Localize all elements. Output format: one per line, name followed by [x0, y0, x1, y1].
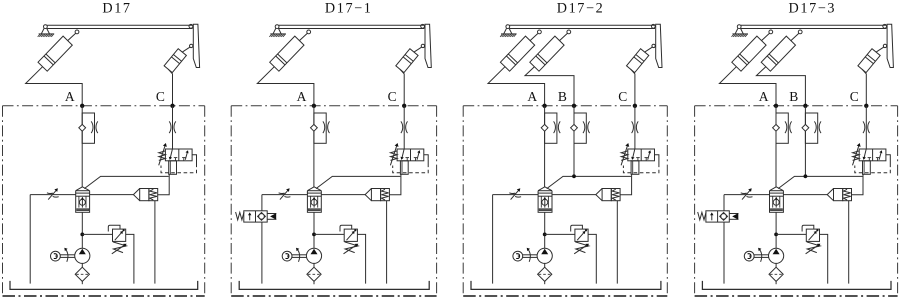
wire port B down — [573, 106, 575, 177]
electric motor — [513, 251, 523, 261]
wire check valve to tank — [616, 201, 618, 284]
check-throttle valve under A — [79, 113, 98, 143]
wire pump junction to relief valve — [776, 233, 806, 235]
wire regulator to pump — [775, 212, 777, 248]
pilot valve spring — [621, 151, 628, 161]
boom beam — [279, 25, 424, 28]
pin joint tilt cylinder — [652, 44, 655, 47]
wire solenoid valve to tank — [261, 222, 263, 284]
check valve poppet — [365, 189, 389, 201]
pin joint cylinder 2 — [798, 30, 802, 34]
pin joint cylinder 2 — [567, 30, 571, 34]
flow regulator valve — [307, 187, 321, 213]
svg-text:D17−3: D17−3 — [789, 0, 837, 16]
wire regulator to pump — [544, 212, 546, 248]
boom beam — [510, 25, 655, 28]
wire port A down — [775, 106, 777, 187]
node pilot-B junction — [804, 174, 808, 178]
check-throttle valve under B — [571, 113, 590, 143]
pilot valve spool extension — [169, 161, 177, 175]
lift cylinder 1 — [732, 33, 770, 71]
rotation arrow — [758, 248, 762, 262]
wire relief valve to tank — [126, 234, 134, 283]
pilot valve right port link — [886, 155, 890, 164]
pilot valve spring — [391, 151, 398, 161]
check-throttle valve under A — [773, 113, 792, 143]
boom beam — [741, 25, 886, 28]
wire check valve to tank — [386, 201, 388, 284]
wire regulator to tank-throttle line — [724, 194, 770, 196]
wire port B down — [804, 106, 806, 177]
throttle on C line — [401, 121, 408, 133]
wire relief valve to tank — [357, 234, 365, 283]
pilot valve 2-position body — [859, 149, 886, 161]
wire tilt cylinder to port C — [400, 69, 404, 106]
pilot valve proportional arrow — [159, 143, 167, 165]
throttle on C line — [632, 121, 639, 133]
wire relief valve to tank — [588, 234, 596, 283]
flow regulator valve — [76, 187, 90, 213]
wire cylinder 2 to port B — [756, 67, 805, 106]
boom pivot with ground — [732, 25, 749, 37]
relief valve — [571, 225, 589, 254]
svg-text:C: C — [156, 89, 165, 104]
pilot valve proportional arrow — [621, 143, 629, 165]
solenoid valve body — [706, 211, 729, 222]
pilot valve drain dashed line — [855, 164, 891, 173]
lift cylinder 2 — [761, 33, 799, 71]
pin joint tilt cylinder — [421, 44, 424, 47]
rotation arrow — [527, 248, 531, 262]
svg-text:A: A — [297, 89, 307, 104]
fork tine — [656, 24, 662, 67]
check valve poppet — [133, 189, 157, 201]
wire cylinder 1 to port A — [719, 67, 776, 106]
fork tine — [425, 24, 431, 67]
motor shaft — [523, 255, 537, 258]
pilot valve 2-position body — [165, 149, 192, 161]
svg-text:A: A — [527, 89, 537, 104]
pump — [769, 248, 784, 263]
tank — [702, 281, 891, 290]
flow regulator valve — [770, 187, 784, 213]
node pilot-B junction — [572, 174, 576, 178]
wire port C down — [634, 106, 636, 149]
wire regulator to tank-throttle line — [30, 194, 75, 196]
wire pump junction to relief valve — [545, 233, 575, 235]
tank — [471, 281, 661, 290]
pin joint boom end — [421, 24, 425, 28]
lift cylinder 1 — [38, 33, 76, 71]
pilot valve right position arrow — [182, 150, 188, 160]
pilot valve right port link — [424, 155, 428, 164]
wire pump to filter — [313, 263, 315, 267]
wire cylinder 1 to port A — [488, 67, 545, 106]
rotation arrow — [296, 248, 300, 262]
wire regulator to pump — [313, 212, 315, 248]
lift cylinder 1 — [500, 33, 538, 71]
pilot valve spool extension — [631, 161, 639, 175]
pilot valve spring — [159, 151, 166, 161]
svg-text:C: C — [850, 89, 859, 104]
pilot valve proportional arrow — [853, 143, 861, 165]
pilot valve spring — [853, 151, 860, 161]
pilot valve left position flow arrow — [631, 149, 640, 161]
wire port C down — [865, 106, 867, 149]
suction filter — [307, 267, 321, 281]
pilot valve left position flow arrow — [863, 149, 872, 161]
throttle on C line — [863, 121, 870, 133]
pilot valve drain dashed line — [161, 164, 197, 173]
check-throttle valve under A — [311, 113, 330, 143]
tilt cylinder — [858, 47, 884, 73]
wire pump to filter — [775, 263, 777, 267]
node pump outlet junction — [80, 233, 84, 237]
wire tilt cylinder to port C — [862, 69, 866, 106]
power unit enclosure — [463, 106, 667, 296]
suction filter — [75, 267, 89, 281]
svg-text:B: B — [558, 89, 567, 104]
boom pivot with ground — [500, 25, 516, 37]
solenoid actuator — [267, 213, 276, 220]
wire port C down — [172, 106, 174, 149]
wire filter to tank — [81, 281, 83, 284]
solenoid valve right position ball seat — [258, 213, 266, 221]
wire tilt cylinder to port C — [168, 69, 172, 106]
tank — [10, 281, 198, 290]
wire pump junction to relief valve — [82, 233, 112, 235]
pilot valve spool extension — [400, 161, 408, 175]
wire check valve to pilot valve — [852, 174, 864, 195]
pilot valve left position flow arrow — [169, 149, 178, 161]
throttle on C line — [169, 121, 176, 133]
wire pump junction to relief valve — [314, 233, 344, 235]
wire cylinder 2 to port B — [525, 67, 574, 106]
wire filter to tank — [313, 281, 315, 284]
wire relief valve to tank — [820, 234, 828, 283]
node port A — [80, 104, 84, 108]
fork tine — [887, 24, 893, 67]
wire regulator to check valve — [783, 194, 827, 196]
wire tilt cylinder to port C — [631, 69, 635, 106]
wire throttle line to solenoid valve — [723, 195, 725, 211]
pilot valve right position arrow — [645, 150, 651, 160]
tilt cylinder — [396, 47, 422, 73]
wire port A down — [544, 106, 546, 187]
electric motor — [282, 251, 292, 261]
svg-text:C: C — [388, 89, 397, 104]
rotation arrow — [64, 248, 68, 262]
boom pivot with ground — [38, 25, 55, 37]
tilt cylinder — [627, 47, 653, 73]
power unit enclosure — [231, 106, 436, 296]
node pump outlet junction — [774, 233, 778, 237]
wire check valve to pilot valve — [158, 174, 170, 195]
wire regulator to check valve — [552, 194, 596, 196]
wire port A down — [81, 106, 83, 187]
variable throttle — [741, 188, 753, 199]
wire throttle line to tank — [29, 195, 31, 284]
pilot valve spool extension — [863, 161, 871, 175]
node port C — [633, 104, 637, 108]
pump — [306, 248, 321, 263]
power unit enclosure — [695, 106, 898, 296]
wire pump to filter — [81, 263, 83, 267]
wire filter to tank — [775, 281, 777, 284]
node port C — [402, 104, 406, 108]
tilt cylinder — [164, 47, 190, 73]
wire regulator to check valve — [90, 194, 134, 196]
lift cylinder 2 — [530, 33, 568, 71]
motor shaft — [60, 255, 74, 258]
boom pivot with ground — [269, 25, 286, 37]
solenoid valve body — [244, 211, 267, 222]
relief valve — [340, 225, 358, 254]
solenoid valve right position ball seat — [720, 213, 728, 221]
solenoid actuator — [729, 213, 738, 220]
svg-text:D17−2: D17−2 — [557, 0, 605, 16]
pump — [537, 248, 552, 263]
wire regulator to pump — [81, 212, 83, 248]
fork tine — [193, 24, 199, 67]
wire cylinder 1 to port A — [26, 67, 83, 106]
check-throttle valve under B — [802, 113, 821, 143]
pilot valve left position flow arrow — [401, 149, 410, 161]
pilot valve drain dashed line — [393, 164, 429, 173]
svg-text:D17: D17 — [102, 0, 131, 16]
wire cylinder 1 to port A — [257, 67, 314, 106]
tank — [239, 281, 429, 290]
pin joint tilt cylinder — [190, 44, 193, 47]
pin joint tilt cylinder — [883, 44, 886, 47]
node port B — [572, 104, 576, 108]
pin joint cylinder 1 — [769, 30, 773, 34]
node pump outlet junction — [543, 233, 547, 237]
motor shaft — [292, 255, 306, 258]
pump — [75, 248, 90, 263]
power unit enclosure — [3, 106, 205, 296]
wire pump to filter — [544, 263, 546, 267]
wire solenoid valve to tank — [723, 222, 725, 284]
wire port C down — [403, 106, 405, 149]
solenoid valve spring — [236, 212, 244, 220]
node port C — [170, 104, 174, 108]
wire port A down — [313, 106, 315, 187]
solenoid valve left position arrow — [710, 212, 713, 220]
pilot valve right position arrow — [414, 150, 420, 160]
node port A — [542, 104, 546, 108]
pin joint cylinder 1 — [75, 30, 79, 34]
svg-text:C: C — [618, 89, 627, 104]
check valve poppet — [596, 189, 620, 201]
node pump outlet junction — [312, 233, 316, 237]
pilot valve right port link — [655, 155, 659, 164]
suction filter — [538, 267, 552, 281]
pilot valve right port link — [192, 155, 196, 164]
wire check valve to tank — [848, 201, 850, 284]
node port B — [803, 104, 807, 108]
wire throttle line to tank — [492, 195, 494, 284]
wire regulator to check valve — [321, 194, 365, 196]
pilot valve drain dashed line — [623, 164, 659, 173]
wire pilot line — [84, 176, 168, 188]
wire filter to tank — [544, 281, 546, 284]
variable throttle — [279, 188, 291, 199]
flow regulator valve — [538, 187, 552, 213]
wire pilot line — [316, 176, 400, 188]
svg-text:A: A — [65, 89, 75, 104]
svg-text:D17−1: D17−1 — [325, 0, 373, 16]
check-throttle valve under A — [541, 113, 560, 143]
check valve poppet — [827, 189, 851, 201]
node port A — [774, 104, 778, 108]
boom beam — [47, 25, 192, 28]
node port A — [312, 104, 316, 108]
electric motor — [744, 251, 754, 261]
node port C — [864, 104, 868, 108]
solenoid valve spring — [698, 212, 706, 220]
pilot valve proportional arrow — [390, 143, 398, 165]
variable throttle — [47, 188, 59, 199]
wire pilot line — [778, 176, 862, 188]
wire check valve to pilot valve — [389, 174, 401, 195]
wire regulator to tank-throttle line — [493, 194, 538, 196]
wire check valve to tank — [154, 201, 156, 284]
solenoid valve ball — [721, 214, 727, 220]
pin joint cylinder 1 — [538, 30, 542, 34]
pilot valve 2-position body — [628, 149, 655, 161]
suction filter — [769, 267, 783, 281]
wire check valve to pilot valve — [620, 174, 632, 195]
wire pilot line — [547, 176, 631, 188]
svg-text:B: B — [789, 89, 798, 104]
pin joint cylinder 1 — [307, 30, 311, 34]
pin joint boom end — [189, 24, 193, 28]
solenoid valve ball — [259, 214, 265, 220]
pin joint boom end — [883, 24, 887, 28]
lift cylinder 1 — [270, 33, 308, 71]
relief valve — [802, 225, 820, 254]
wire throttle line to solenoid valve — [261, 195, 263, 211]
electric motor — [51, 251, 61, 261]
pilot valve 2-position body — [397, 149, 424, 161]
pin joint boom end — [651, 24, 655, 28]
svg-text:A: A — [759, 89, 769, 104]
motor shaft — [754, 255, 768, 258]
variable throttle — [509, 188, 521, 199]
pilot valve right position arrow — [876, 150, 882, 160]
wire regulator to tank-throttle line — [262, 194, 308, 196]
relief valve — [108, 225, 126, 254]
solenoid valve left position arrow — [248, 212, 251, 220]
